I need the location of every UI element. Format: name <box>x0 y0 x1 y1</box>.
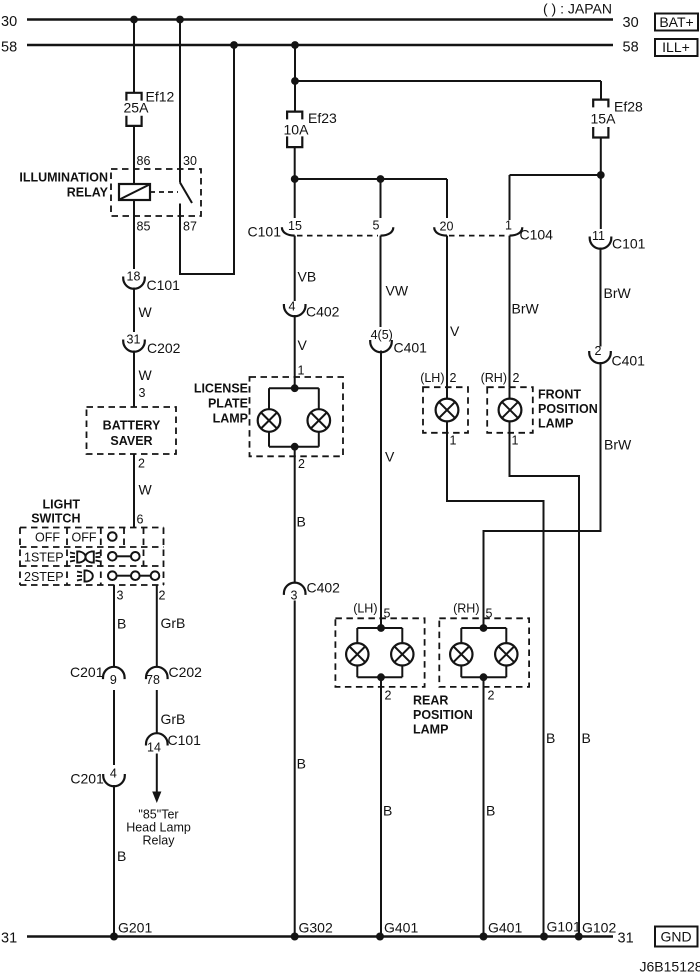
svg-text:30: 30 <box>183 154 197 168</box>
wire switch2 down GrB <box>157 585 186 667</box>
wire branch y179 <box>295 178 447 180</box>
junction on bus 58 at x=295 <box>291 41 299 49</box>
svg-text:REAR: REAR <box>413 694 448 708</box>
wire bus58 to Ef23 <box>294 45 296 112</box>
light switch row 1STEP <box>24 551 64 565</box>
rear RH lamp pin 5 <box>453 601 492 620</box>
drawing number J6B15128 <box>640 959 700 975</box>
wire V to rear LH lamp <box>381 351 395 629</box>
bus 58 ILL+ rail <box>27 44 613 46</box>
svg-text:B: B <box>117 848 126 864</box>
svg-text:5: 5 <box>373 219 380 233</box>
license lamp pin 1 <box>298 364 305 378</box>
headlamp glyph 2STEP <box>77 571 93 582</box>
svg-text:G302: G302 <box>299 920 333 936</box>
svg-text:31: 31 <box>618 931 634 947</box>
light switch label <box>31 498 80 526</box>
svg-text:(LH): (LH) <box>420 371 444 385</box>
front LH lamp pin 1 <box>450 434 457 448</box>
svg-text:C201: C201 <box>70 771 104 787</box>
label 58 left <box>1 40 17 56</box>
svg-text:LAMP: LAMP <box>538 417 573 431</box>
svg-text:3: 3 <box>291 589 298 603</box>
connector C101 pin 15 <box>282 219 302 236</box>
light switch row OFF <box>35 531 97 545</box>
light switch pin 3 <box>117 589 124 603</box>
rear LH lamp pin 2 <box>385 689 392 703</box>
wire rear LH to ground G401 <box>381 677 392 936</box>
wire battery saver to light switch <box>134 454 153 528</box>
rear position lamp label <box>413 694 473 737</box>
connector C101 pin 11 <box>590 229 646 252</box>
svg-text:11: 11 <box>592 229 605 243</box>
svg-text:C101: C101 <box>612 236 646 252</box>
svg-text:C402: C402 <box>307 580 341 596</box>
relay pin 87 <box>183 220 197 234</box>
connector C402 pin 4 <box>284 300 340 320</box>
wire rear RH to ground G401 <box>484 677 496 936</box>
svg-text:58: 58 <box>1 40 17 56</box>
license lamp bulb right <box>308 409 331 432</box>
connector C401 pin 2 <box>589 344 645 369</box>
svg-text:C401: C401 <box>394 340 428 356</box>
wire to C104-1 <box>509 175 511 220</box>
ground G302 <box>291 920 333 941</box>
relay coil-contact dashed link <box>150 191 178 193</box>
svg-text:V: V <box>298 337 308 353</box>
connector C104 dashed body <box>449 235 507 237</box>
wire front LH to ground G101 <box>446 433 555 937</box>
light switch row 2STEP <box>24 570 64 584</box>
fuse Ef12 25A <box>124 89 175 126</box>
svg-text:C101: C101 <box>147 277 181 293</box>
svg-text:B: B <box>486 803 495 819</box>
junction on bus 58 at x=234 <box>230 41 238 49</box>
rear LH lamp pin 5 <box>353 601 390 620</box>
svg-text:POSITION: POSITION <box>538 402 598 416</box>
wire Ef28 branch y175 <box>510 174 602 176</box>
fuse Ef23 10A <box>284 110 338 147</box>
wire to head lamp relay arrow <box>156 754 158 794</box>
battery saver pin 3 <box>139 386 146 400</box>
svg-text:OFF: OFF <box>35 531 60 545</box>
svg-text:1STEP: 1STEP <box>24 551 64 565</box>
relay contact blade <box>180 183 192 204</box>
switch contacts 1STEP <box>108 552 140 561</box>
GND terminal box <box>655 927 698 947</box>
svg-text:V: V <box>385 449 395 465</box>
wire bus30 to relay contact 30 <box>179 20 181 183</box>
ILL+ terminal box <box>655 39 698 56</box>
junction on bus 30 at x=134 <box>130 16 138 24</box>
note ( ) : JAPAN <box>543 1 612 17</box>
ground G101 <box>540 919 581 941</box>
headlamp glyph 1STEP <box>70 552 101 563</box>
svg-text:31: 31 <box>1 931 17 947</box>
svg-text:3: 3 <box>139 386 146 400</box>
connector C101 label <box>248 224 282 240</box>
rear RH bottom junction <box>480 673 488 681</box>
connector C401 pin 4(5) <box>370 328 427 356</box>
svg-text:W: W <box>139 367 153 383</box>
svg-text:31: 31 <box>127 333 141 347</box>
svg-text:(LH): (LH) <box>353 601 377 615</box>
wire bus30 to fuse Ef12 <box>133 20 135 94</box>
svg-text:GND: GND <box>660 929 691 945</box>
junction x295 y81 <box>291 77 299 85</box>
rear RH top junction <box>480 624 488 632</box>
wire W segment <box>134 288 153 333</box>
relay pin 85 <box>137 220 151 234</box>
svg-text:G201: G201 <box>118 920 152 936</box>
junction x295 y179 <box>291 175 299 183</box>
rear position lamp RH dashed box <box>439 618 529 687</box>
front position lamp LH dashed box <box>423 387 468 433</box>
svg-text:6: 6 <box>137 513 144 527</box>
wire GrB segment <box>157 690 186 733</box>
svg-text:C401: C401 <box>612 353 646 369</box>
wire Ef28 down <box>600 138 602 230</box>
ground G401 right <box>480 920 523 941</box>
front position lamp label <box>538 388 598 431</box>
svg-text:( ) : JAPAN: ( ) : JAPAN <box>543 1 612 17</box>
svg-text:18: 18 <box>127 270 141 284</box>
svg-text:ILL+: ILL+ <box>662 39 690 55</box>
connector C104 pin 20 <box>434 220 453 236</box>
svg-text:20: 20 <box>440 220 454 234</box>
wire to ground G302 <box>295 601 306 937</box>
svg-text:2: 2 <box>385 689 392 703</box>
svg-text:C202: C202 <box>169 664 203 680</box>
svg-text:1: 1 <box>512 434 519 448</box>
wire switch3 down B <box>114 585 126 667</box>
rear RH bulb left <box>450 643 472 665</box>
wire C101-15 down VB <box>295 236 316 301</box>
svg-text:J6B15128: J6B15128 <box>640 959 700 975</box>
svg-text:W: W <box>139 482 153 498</box>
svg-text:(RH): (RH) <box>481 371 507 385</box>
front RH lamp pin 1 <box>512 434 519 448</box>
wire y179 to C101-5 <box>380 179 382 218</box>
svg-text:Relay: Relay <box>143 834 176 848</box>
svg-text:1: 1 <box>505 219 512 233</box>
connector C104 pin 1 <box>505 219 553 243</box>
wire U-turn to bus58 <box>179 45 235 274</box>
front RH wire through bulb <box>509 387 511 433</box>
svg-text:14: 14 <box>147 741 161 755</box>
front LH bulb <box>436 399 459 422</box>
wire y81 corner to Ef28 <box>600 81 602 100</box>
svg-text:W: W <box>139 304 153 320</box>
svg-text:2: 2 <box>595 344 602 358</box>
svg-text:85: 85 <box>137 220 151 234</box>
svg-text:30: 30 <box>623 15 639 31</box>
head lamp relay note <box>126 808 191 848</box>
svg-text:G101: G101 <box>547 919 581 935</box>
svg-text:2STEP: 2STEP <box>24 570 64 584</box>
svg-text:C101: C101 <box>168 732 202 748</box>
connector C201 pin 4 <box>70 767 124 787</box>
light switch pin 2 <box>159 589 166 603</box>
svg-text:86: 86 <box>137 154 151 168</box>
wire license lamp to C402-3 <box>295 447 306 583</box>
svg-text:B: B <box>297 514 306 530</box>
wire y179 corner to C104-20 <box>446 179 448 218</box>
front RH lamp pin 2 <box>481 371 520 385</box>
relay U1 dashed box <box>111 169 201 216</box>
rear position lamp LH dashed box <box>335 618 424 687</box>
rear LH bottom junction <box>377 673 385 681</box>
svg-text:VB: VB <box>298 269 317 285</box>
connector C101 pin 5 <box>373 219 394 236</box>
svg-text:C202: C202 <box>147 340 181 356</box>
svg-text:POSITION: POSITION <box>413 708 473 722</box>
svg-text:G401: G401 <box>384 920 418 936</box>
rear RH lamp loop <box>461 628 506 677</box>
front RH bulb <box>499 399 522 422</box>
connector C202 pin 78 <box>146 664 202 687</box>
license plate lamp label <box>194 382 248 426</box>
svg-text:B: B <box>117 616 126 632</box>
junction on bus 30 at x=180 <box>176 16 184 24</box>
wire fuse Ef12 to relay coil <box>133 126 135 184</box>
wire V to license lamp <box>295 315 308 388</box>
svg-text:1: 1 <box>298 364 305 378</box>
svg-text:GrB: GrB <box>161 711 186 727</box>
front position lamp RH dashed box <box>487 387 533 433</box>
connector C402 pin 3 <box>284 580 340 603</box>
rear LH top junction <box>377 624 385 632</box>
wire C401-2 down BrW <box>601 362 633 532</box>
wire C104-20 down V <box>447 236 460 388</box>
svg-text:B: B <box>383 803 392 819</box>
light switch pin 6 <box>137 513 144 527</box>
front LH wire through bulb <box>446 387 448 433</box>
svg-text:4(5): 4(5) <box>371 328 393 342</box>
rear RH lamp pin 2 <box>488 689 495 703</box>
front LH lamp pin 2 <box>420 371 456 385</box>
ground G401 left <box>376 920 418 941</box>
svg-text:BrW: BrW <box>512 301 540 317</box>
wire C104-1 down BrW <box>510 236 540 388</box>
wire branch to Ef28 <box>295 80 601 82</box>
svg-text:V: V <box>450 323 460 339</box>
svg-text:OFF: OFF <box>72 531 97 545</box>
license lamp loop <box>269 388 319 447</box>
svg-text:VW: VW <box>386 283 409 299</box>
svg-text:2: 2 <box>450 371 457 385</box>
wire W segment 2 <box>134 351 153 408</box>
connector C101 pin 14 <box>146 732 201 755</box>
license lamp bottom junction <box>291 443 299 451</box>
svg-text:GrB: GrB <box>161 615 186 631</box>
svg-text:25A: 25A <box>124 100 150 116</box>
svg-text:9: 9 <box>110 673 117 687</box>
arrow to head lamp relay <box>152 792 161 804</box>
svg-text:LAMP: LAMP <box>213 412 248 426</box>
svg-text:4: 4 <box>289 300 296 314</box>
svg-text:C402: C402 <box>306 304 340 320</box>
connector C201 pin 9 <box>70 664 125 687</box>
svg-text:G102: G102 <box>582 920 616 936</box>
bus 30 BAT+ rail <box>27 18 613 20</box>
junction x380 y179 <box>377 175 385 183</box>
wire relay 85 down <box>133 200 135 269</box>
wire Ef23 to C101-15 <box>294 147 296 218</box>
wire C101-5 down VW <box>381 236 409 327</box>
rear LH bulb left <box>346 643 368 665</box>
svg-text:ILLUMINATION: ILLUMINATION <box>19 171 108 185</box>
label 31 left <box>1 931 17 947</box>
svg-text:LAMP: LAMP <box>413 723 448 737</box>
label 30 right <box>623 15 639 31</box>
svg-text:Ef28: Ef28 <box>614 99 643 115</box>
connector C101 pin 18 <box>123 270 180 294</box>
label 30 left <box>1 14 17 30</box>
license plate lamp dashed box <box>250 377 344 456</box>
svg-text:Head Lamp: Head Lamp <box>126 821 191 835</box>
svg-text:C104: C104 <box>520 227 554 243</box>
ground G102 <box>575 920 617 941</box>
svg-text:"85"Ter: "85"Ter <box>138 808 178 822</box>
wire to ground G201 <box>114 785 126 937</box>
svg-text:2: 2 <box>159 589 166 603</box>
svg-text:C101: C101 <box>248 224 282 240</box>
fuse Ef28 15A <box>591 99 644 138</box>
svg-text:B: B <box>582 730 591 746</box>
label 31 right <box>618 931 634 947</box>
svg-text:B: B <box>297 756 306 772</box>
svg-text:Ef12: Ef12 <box>146 89 175 105</box>
rear LH bulb right <box>391 643 413 665</box>
light switch dashed table frame <box>20 528 164 586</box>
wire corner to rear RH lamp <box>483 531 602 628</box>
svg-text:LICENSE: LICENSE <box>194 382 248 396</box>
switch contact OFF <box>108 532 117 541</box>
svg-text:2: 2 <box>298 457 305 471</box>
svg-text:2: 2 <box>138 457 145 471</box>
relay pin 30 <box>183 154 197 168</box>
rear LH lamp loop <box>357 628 402 677</box>
junction x601 y175 <box>597 171 605 179</box>
license lamp bulb left <box>258 409 281 432</box>
svg-text:2: 2 <box>488 689 495 703</box>
svg-text:15: 15 <box>288 219 302 233</box>
svg-text:LIGHT: LIGHT <box>43 498 81 512</box>
svg-text:BATTERY: BATTERY <box>103 419 161 433</box>
svg-text:58: 58 <box>623 40 639 56</box>
svg-text:78: 78 <box>146 673 160 687</box>
battery saver box <box>87 407 177 454</box>
svg-text:SAVER: SAVER <box>110 434 152 448</box>
illumination relay label <box>19 171 108 200</box>
svg-text:BrW: BrW <box>604 285 632 301</box>
svg-text:BAT+: BAT+ <box>659 14 693 30</box>
relay coil <box>119 184 150 200</box>
svg-text:Ef23: Ef23 <box>308 110 337 126</box>
svg-text:B: B <box>546 730 555 746</box>
svg-text:4: 4 <box>110 767 117 781</box>
svg-text:SWITCH: SWITCH <box>31 512 80 526</box>
svg-text:10A: 10A <box>284 122 310 138</box>
relay pin 86 <box>137 154 151 168</box>
license lamp pin 2 <box>298 457 305 471</box>
battery saver pin 2 <box>138 457 145 471</box>
connector C101 dashed body <box>297 235 378 237</box>
rear RH bulb right <box>495 643 517 665</box>
svg-text:15A: 15A <box>591 111 617 127</box>
svg-text:(RH): (RH) <box>453 601 479 615</box>
svg-text:C201: C201 <box>70 664 104 680</box>
bus 31 ground rail <box>27 935 613 937</box>
label 58 right <box>623 40 639 56</box>
wire relay 87 down <box>179 204 181 276</box>
license lamp top junction <box>291 384 299 392</box>
svg-text:RELAY: RELAY <box>67 186 109 200</box>
connector C202 pin 31 <box>123 333 180 357</box>
BAT+ terminal box <box>655 14 698 31</box>
wire to C201-4 <box>113 690 115 765</box>
svg-text:BrW: BrW <box>604 437 632 453</box>
svg-text:30: 30 <box>1 14 17 30</box>
wire BrW segment <box>601 248 632 347</box>
svg-text:87: 87 <box>183 220 197 234</box>
switch contacts 2STEP <box>108 571 159 580</box>
svg-text:PLATE: PLATE <box>208 397 248 411</box>
svg-text:1: 1 <box>450 434 457 448</box>
svg-text:G401: G401 <box>488 920 522 936</box>
svg-text:FRONT: FRONT <box>538 388 581 402</box>
ground G201 <box>110 920 152 941</box>
wire front RH to ground G102 <box>509 433 591 937</box>
svg-text:2: 2 <box>513 371 520 385</box>
svg-text:3: 3 <box>117 589 124 603</box>
